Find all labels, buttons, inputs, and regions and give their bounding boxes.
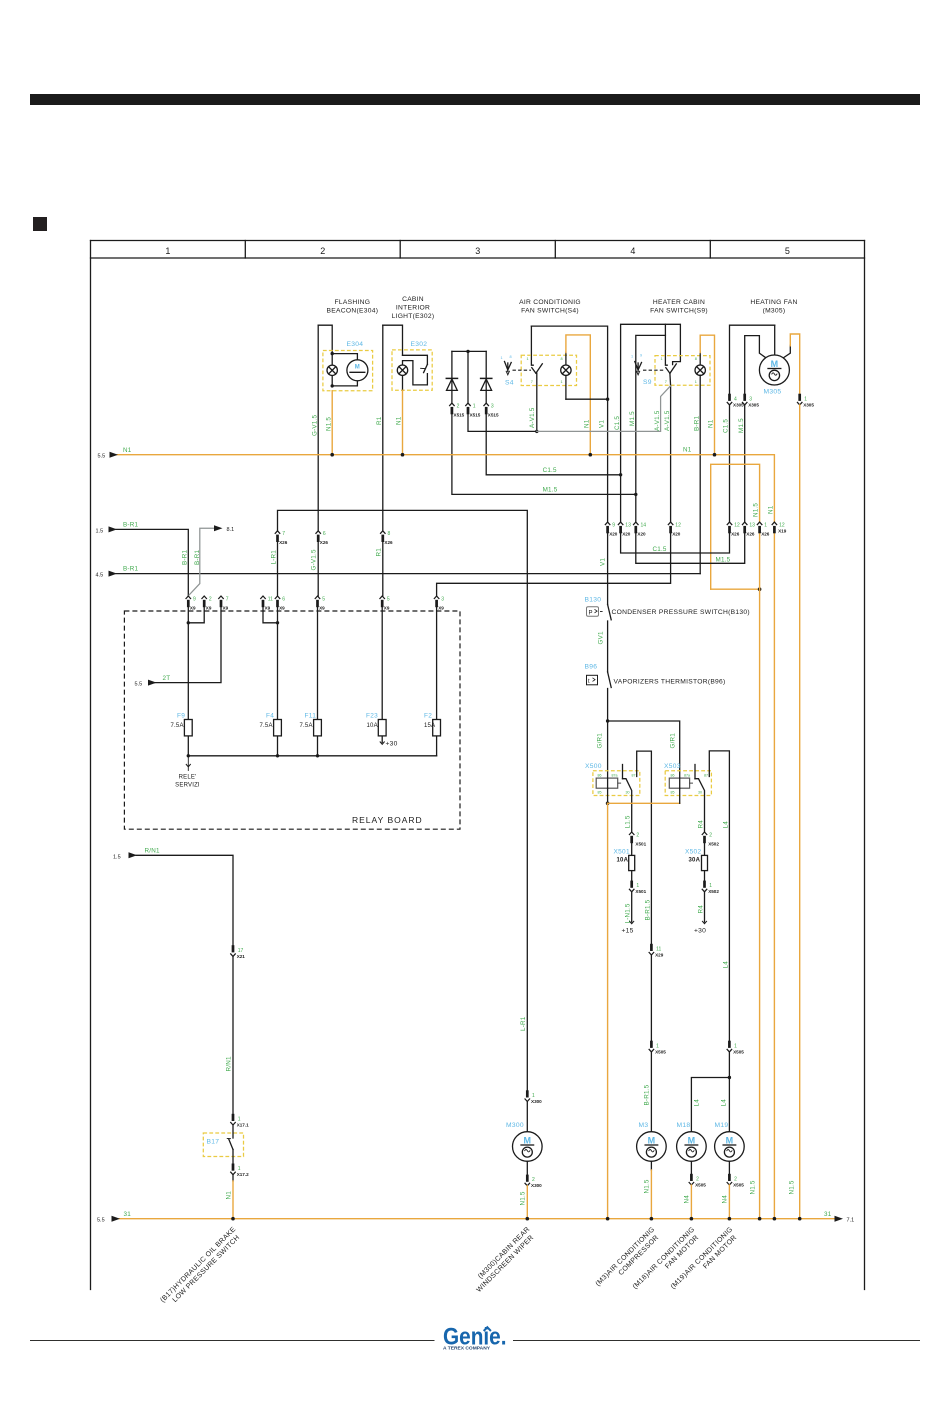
svg-text:85: 85 — [598, 791, 602, 795]
svg-text:12: 12 — [734, 523, 740, 529]
pin X515-1 — [465, 403, 470, 414]
wire S9 input stub — [665, 324, 667, 365]
svg-text:X26: X26 — [761, 532, 770, 537]
wire A-V1.5 gray link to S4 — [537, 386, 671, 432]
wire F4 feed — [277, 607, 279, 719]
wire S9 outer hat C1.5 — [621, 324, 681, 475]
node rail F11 — [316, 754, 319, 757]
pin X9-5b — [380, 596, 385, 607]
svg-text:87: 87 — [704, 774, 708, 778]
wire V1 down — [607, 399, 609, 522]
svg-text:X503: X503 — [664, 763, 681, 770]
svg-text:X501: X501 — [635, 889, 646, 894]
svg-text:N1.5: N1.5 — [753, 503, 760, 517]
svg-text:X300: X300 — [531, 1099, 542, 1104]
wire X503 coil bottom — [679, 788, 681, 803]
svg-text:X26: X26 — [279, 540, 288, 545]
svg-text:2: 2 — [209, 596, 212, 602]
svg-text:9: 9 — [193, 596, 196, 602]
fuse F4 — [277, 720, 279, 756]
wire A-V1.5 link to X9-3 — [437, 534, 671, 596]
svg-text:CABIN: CABIN — [402, 296, 424, 303]
wire X500 hat B-R1.5 — [637, 751, 652, 944]
pin X29-11 — [649, 944, 654, 955]
wire orange relay link — [608, 802, 680, 804]
svg-text:7: 7 — [282, 531, 285, 537]
svg-text:t: t — [588, 679, 590, 685]
wire X9-2 join — [188, 607, 204, 622]
svg-text:F11: F11 — [305, 713, 317, 720]
pin X505-2 m19 — [727, 1174, 732, 1185]
svg-text:X515: X515 — [470, 413, 481, 418]
svg-text:P: P — [589, 610, 593, 616]
svg-text:M1.5: M1.5 — [716, 557, 731, 564]
svg-text:3: 3 — [441, 596, 444, 602]
svg-text:7.5A: 7.5A — [260, 723, 273, 729]
lamp S9 — [699, 352, 701, 375]
switch B96 blade — [608, 672, 612, 688]
wire M19 bottom — [728, 1161, 730, 1174]
svg-text:X29: X29 — [655, 952, 664, 957]
pin X515-3 — [484, 403, 489, 414]
switch S9 second pole — [635, 362, 642, 375]
wire G/R1 to X503 — [608, 721, 680, 778]
node X9-11 join — [276, 621, 279, 624]
svg-text:1: 1 — [165, 246, 170, 256]
svg-text:7: 7 — [665, 380, 667, 384]
pin X26-8 — [380, 531, 385, 542]
svg-text:HEATER CABIN: HEATER CABIN — [653, 299, 705, 306]
svg-text:11: 11 — [268, 596, 273, 602]
svg-text:5.5: 5.5 — [98, 454, 106, 460]
wire R/N1 feed — [136, 855, 233, 945]
svg-text:G-V1.5: G-V1.5 — [311, 549, 318, 570]
label B17 caption — [159, 1226, 243, 1310]
wire B-R1 S9 lamp down — [699, 375, 701, 573]
svg-text:B-R1.5: B-R1.5 — [645, 899, 652, 920]
switch S9 enclosure — [655, 356, 710, 386]
svg-text:B130: B130 — [585, 597, 602, 604]
svg-text:X515: X515 — [488, 413, 499, 418]
node G/R1 — [606, 719, 609, 722]
svg-text:X505: X505 — [733, 1182, 744, 1187]
svg-text:N1.5: N1.5 — [750, 1180, 757, 1194]
svg-text:1: 1 — [695, 380, 697, 384]
svg-text:S4: S4 — [505, 380, 514, 387]
pin X26-12 — [727, 522, 732, 533]
svg-text:X9: X9 — [319, 605, 325, 610]
svg-text:2T: 2T — [163, 675, 171, 682]
node bus x500 — [606, 1217, 610, 1221]
svg-text:N1.5: N1.5 — [326, 417, 333, 431]
svg-text:N1: N1 — [768, 505, 775, 514]
svg-text:7.5A: 7.5A — [300, 723, 313, 729]
node V1 top — [606, 398, 609, 401]
node bus E304 — [330, 453, 334, 457]
svg-text:N1: N1 — [123, 447, 132, 454]
svg-text:C1.5: C1.5 — [543, 467, 557, 474]
wire F9 feed — [187, 607, 189, 719]
svg-text:31: 31 — [824, 1211, 832, 1218]
wire orange relay down — [607, 803, 609, 1218]
svg-text:X9: X9 — [279, 605, 285, 610]
pin X505-2 m18 — [689, 1174, 694, 1185]
svg-text:6: 6 — [282, 596, 285, 602]
svg-text:X20: X20 — [637, 532, 646, 537]
linkage S4 dashes — [513, 369, 532, 371]
svg-text:87a: 87a — [612, 774, 618, 778]
svg-text:L-R1: L-R1 — [271, 550, 278, 565]
svg-text:R4: R4 — [698, 905, 705, 914]
wire C1.5 from diode D2 — [486, 414, 620, 475]
svg-text:B-R1: B-R1 — [694, 416, 701, 431]
svg-text:N1: N1 — [396, 416, 403, 425]
svg-text:E304: E304 — [347, 341, 364, 348]
svg-text:A-V1.5: A-V1.5 — [529, 407, 536, 428]
wire C1.5 to X20-13 — [620, 475, 622, 522]
pin X26-13 — [742, 522, 747, 533]
wire L4 branch to M18 — [691, 1078, 729, 1132]
wire M305 outer hat C1.5 — [730, 325, 775, 394]
node bus S4 lamp — [589, 453, 593, 457]
svg-text:N1: N1 — [226, 1191, 233, 1200]
svg-text:N1: N1 — [584, 419, 591, 428]
svg-text:5: 5 — [785, 246, 790, 256]
pinmark X500 tiny — [598, 774, 636, 795]
wire R4 to +30 — [704, 892, 706, 922]
wire A-V1.5 from diode middle — [468, 414, 537, 431]
svg-text:1.5: 1.5 — [96, 528, 104, 534]
pin X19-12 — [772, 522, 777, 533]
wire N1 to bus — [232, 1175, 234, 1181]
svg-text:1: 1 — [764, 523, 767, 529]
svg-text:4: 4 — [630, 246, 635, 256]
svg-text:85: 85 — [671, 791, 675, 795]
svg-text:CONDENSER PRESSURE SWITCH(B1: CONDENSER PRESSURE SWITCH(B130) — [612, 609, 750, 616]
node bus b17 — [231, 1217, 235, 1221]
svg-text:M305: M305 — [764, 389, 782, 396]
svg-text:L4: L4 — [723, 821, 730, 829]
node rail F4 — [276, 754, 279, 757]
svg-text:L4: L4 — [723, 961, 730, 969]
svg-text:X501: X501 — [635, 841, 646, 846]
svg-text:X26: X26 — [746, 532, 755, 537]
wire N1.5 E304 to bus — [331, 391, 333, 455]
label M300 caption — [470, 1226, 538, 1294]
svg-text:M: M — [771, 359, 779, 369]
wire diode top rail — [452, 350, 486, 352]
svg-text:F9: F9 — [177, 713, 185, 720]
wire M1.5 from diode D1 — [452, 414, 636, 494]
svg-text:+30: +30 — [694, 928, 706, 935]
svg-text:RELE': RELE' — [179, 775, 197, 781]
svg-text:14: 14 — [641, 523, 647, 529]
wire S9 blade output — [669, 373, 672, 522]
fuse X502 — [704, 843, 706, 880]
fuse F2 — [436, 720, 438, 756]
svg-text:X300: X300 — [531, 1183, 542, 1188]
wire X9-11 join — [263, 607, 278, 622]
svg-text:1: 1 — [501, 356, 503, 360]
node bus m305 — [798, 1217, 802, 1221]
svg-text:INTERIOR: INTERIOR — [396, 305, 430, 312]
svg-text:8: 8 — [695, 357, 697, 361]
svg-text:X26: X26 — [731, 532, 740, 537]
svg-text:X515: X515 — [454, 413, 465, 418]
wire N1 M305 orange down — [799, 405, 801, 1219]
wire L-N1.5 to +15 — [631, 892, 633, 922]
svg-text:AIR CONDITIONIG: AIR CONDITIONIG — [519, 299, 581, 306]
svg-text:B-R1.5: B-R1.5 — [644, 1084, 651, 1105]
wire diode middle — [467, 351, 469, 403]
svg-text:X505: X505 — [695, 1182, 706, 1187]
pin X9-11 — [260, 596, 265, 607]
pin X502-1 — [702, 881, 707, 892]
wire E304 internal bottom — [332, 381, 357, 386]
svg-text:L4: L4 — [694, 1099, 701, 1107]
fuse X501 — [631, 843, 633, 880]
svg-text:X20: X20 — [622, 532, 631, 537]
pin X20-14 — [633, 522, 638, 533]
svg-text:F23: F23 — [366, 713, 378, 720]
wire E304 hat — [318, 325, 332, 353]
svg-text:8: 8 — [561, 357, 563, 361]
svg-text:M1.5: M1.5 — [543, 487, 558, 494]
wire M305 caption stub — [774, 325, 776, 355]
node M1.5 join — [634, 493, 637, 496]
svg-text:R4: R4 — [698, 820, 705, 829]
svg-text:87a: 87a — [684, 774, 690, 778]
pin X515-2 — [449, 403, 454, 414]
svg-text:X305: X305 — [748, 403, 759, 408]
pin X9-3 — [434, 596, 439, 607]
svg-text:7.5A: 7.5A — [171, 723, 184, 729]
pinmark X503 tiny — [671, 774, 709, 795]
wire M1.5 M305 down — [744, 405, 746, 522]
svg-text:30A: 30A — [689, 858, 701, 864]
wire S4 lamp orange hat — [566, 335, 590, 455]
wire rele servizi stub — [187, 756, 189, 771]
wire B-R1 4.5 line — [116, 573, 700, 575]
pin X17.2 — [230, 1164, 235, 1175]
node E304 bottom — [331, 384, 334, 387]
svg-text:2: 2 — [320, 246, 325, 256]
wire N1 E302 to bus — [402, 390, 404, 454]
svg-text:87: 87 — [632, 774, 636, 778]
svg-text:M19: M19 — [715, 1122, 729, 1129]
svg-text:R1: R1 — [376, 416, 383, 425]
svg-text:V1: V1 — [600, 558, 607, 566]
wire E302 caption stub / R1 drop — [382, 325, 384, 530]
arrow 31 right — [835, 1216, 844, 1222]
svg-text:L-N1.5: L-N1.5 — [625, 903, 632, 923]
svg-text:E302: E302 — [411, 341, 428, 348]
fuse F11 — [317, 720, 319, 756]
pin X9-7 — [218, 596, 223, 607]
svg-text:5: 5 — [387, 596, 390, 602]
node bus n15 — [758, 1217, 762, 1221]
svg-text:M18: M18 — [677, 1122, 691, 1129]
svg-text:4.5: 4.5 — [96, 573, 104, 579]
svg-text:R/N1: R/N1 — [145, 848, 160, 855]
label M18 caption — [632, 1226, 703, 1297]
svg-text:M: M — [355, 364, 360, 370]
pin X21-17 — [230, 945, 235, 956]
svg-text:GV1: GV1 — [598, 631, 605, 644]
light E302 enclosure — [392, 350, 432, 390]
wire N1 bus — [117, 455, 774, 522]
wire M305 right orange hat — [784, 345, 791, 357]
wire S4 input stub — [531, 326, 533, 365]
switch S9 blade — [666, 368, 670, 374]
svg-text:M1.5: M1.5 — [738, 418, 745, 433]
svg-text:1: 1 — [561, 380, 563, 384]
sensor B130 symbol — [587, 607, 599, 617]
label M3 caption — [595, 1226, 663, 1294]
node bus E302 — [401, 453, 405, 457]
node E304 top — [331, 352, 334, 355]
svg-text:A-V1.5: A-V1.5 — [654, 410, 661, 431]
pin X305-4 — [727, 394, 732, 405]
contact X503 — [694, 765, 696, 779]
pin X26-6 — [316, 531, 321, 542]
svg-text:X26: X26 — [384, 540, 393, 545]
motor E304 beacon — [347, 360, 368, 381]
node bus m3 — [650, 1217, 654, 1221]
svg-text:86: 86 — [598, 774, 602, 778]
svg-text:31: 31 — [124, 1211, 132, 1218]
wire N1.5 hat — [711, 464, 760, 589]
svg-text:X502: X502 — [685, 849, 701, 856]
switch S4 blade — [532, 368, 536, 374]
node rail F9 — [187, 754, 190, 757]
pin X17.1 — [230, 1114, 235, 1125]
wire B-R1.5 to X505 — [650, 955, 652, 1041]
switch S4 enclosure — [521, 355, 576, 385]
fuse F9 — [187, 720, 189, 756]
svg-text:R/N1: R/N1 — [226, 1056, 233, 1071]
svg-text:L4: L4 — [721, 1099, 728, 1107]
wire S9 lamp orange hat N1 — [700, 335, 714, 455]
svg-text:B-R1: B-R1 — [182, 550, 189, 565]
svg-text:G/R1: G/R1 — [670, 733, 677, 749]
svg-text:X9: X9 — [206, 605, 212, 610]
wire R1 pin to X9 — [382, 542, 384, 596]
switch S4 second pole — [505, 362, 512, 375]
svg-text:X502: X502 — [708, 889, 719, 894]
wire L-R1 horizontal — [278, 510, 528, 1090]
wire R/N1 to X17.1 — [232, 956, 234, 1113]
svg-text:3: 3 — [475, 246, 480, 256]
wire S4 output A-V1.5 — [536, 373, 538, 431]
sensor B96 symbol — [587, 675, 598, 685]
svg-text:8: 8 — [510, 355, 512, 359]
switch B130 blade — [600, 611, 604, 613]
pin X305-3 — [742, 394, 747, 405]
svg-text:5.5: 5.5 — [135, 682, 143, 688]
wire to motor M300 — [526, 1102, 528, 1132]
wire M3 bottom N1.5 — [650, 1161, 652, 1170]
wire N4 m18 — [690, 1185, 692, 1219]
switch B17 enclosure — [203, 1133, 243, 1157]
svg-text:BEACON(E304): BEACON(E304) — [327, 308, 379, 315]
svg-text:B-R1: B-R1 — [123, 521, 138, 528]
contact X500 — [622, 765, 624, 779]
motor M19 — [715, 1132, 745, 1162]
svg-text:B96: B96 — [585, 664, 598, 671]
svg-text:X502: X502 — [708, 841, 719, 846]
svg-text:G-V1.5: G-V1.5 — [312, 415, 319, 436]
wire S9 inner hat M1.5 — [636, 335, 666, 494]
svg-text:FLASHING: FLASHING — [335, 299, 371, 306]
linkage S9 dashes — [643, 369, 665, 371]
wire G-V1.5 pin to X9 — [317, 542, 319, 596]
wire B-R1 1.5 line — [116, 529, 188, 595]
node C1.5 join — [619, 473, 622, 476]
svg-text:X505: X505 — [733, 1049, 744, 1054]
svg-text:86: 86 — [671, 774, 675, 778]
svg-text:7: 7 — [226, 596, 229, 602]
svg-text:2: 2 — [636, 832, 639, 838]
svg-text:L-R1: L-R1 — [520, 1016, 527, 1031]
svg-text:N1.5: N1.5 — [520, 1191, 527, 1205]
svg-text:M1.5: M1.5 — [629, 411, 636, 426]
svg-text:N4: N4 — [684, 1195, 691, 1204]
wire F23 feed — [381, 607, 383, 719]
wire L4 to junction — [728, 1052, 730, 1132]
wire E304 caption stub / G-V1.5 drop — [317, 325, 319, 530]
svg-text:13: 13 — [625, 523, 631, 529]
pin X9-2 — [202, 596, 207, 607]
switch E302 internal — [403, 355, 428, 364]
svg-text:X20: X20 — [609, 532, 618, 537]
wire N1.5 link — [711, 588, 760, 590]
svg-text:FAN SWITCH(S9): FAN SWITCH(S9) — [650, 308, 708, 315]
pin X505-1 m19 — [727, 1041, 732, 1052]
beacon E304 enclosure — [323, 351, 373, 391]
lamp E304 — [331, 354, 333, 386]
node S4 A-V1.5 — [535, 430, 538, 433]
svg-text:7: 7 — [531, 380, 533, 384]
svg-text:+30: +30 — [386, 741, 398, 748]
pinmark S4 tiny — [527, 357, 563, 384]
wire fuse rail — [188, 755, 436, 757]
wire C1.5 link to X26-12 — [621, 534, 730, 554]
relay X503 enclosure — [665, 771, 711, 796]
svg-text:X9: X9 — [384, 605, 390, 610]
terminal +30 F23 — [380, 742, 385, 745]
svg-text:X19: X19 — [778, 529, 787, 534]
svg-text:F4: F4 — [266, 713, 274, 720]
svg-text:V1: V1 — [599, 420, 606, 428]
label M19 caption — [670, 1226, 741, 1297]
svg-text:L1.5: L1.5 — [625, 815, 632, 828]
svg-text:X20: X20 — [672, 532, 681, 537]
wire X9-7 to 2T — [155, 607, 222, 682]
svg-text:15A: 15A — [424, 723, 435, 729]
svg-text:N1: N1 — [708, 419, 715, 428]
pin X9-6 — [275, 596, 280, 607]
svg-text:8.1: 8.1 — [227, 527, 235, 533]
svg-text:F2: F2 — [424, 713, 432, 720]
svg-text:S9: S9 — [643, 379, 652, 386]
svg-text:30: 30 — [698, 791, 702, 795]
motor M300 — [513, 1132, 543, 1162]
svg-text:+15: +15 — [622, 928, 634, 935]
svg-text:X9: X9 — [265, 605, 271, 610]
coil X500 — [596, 778, 622, 788]
svg-text:8: 8 — [388, 531, 391, 537]
